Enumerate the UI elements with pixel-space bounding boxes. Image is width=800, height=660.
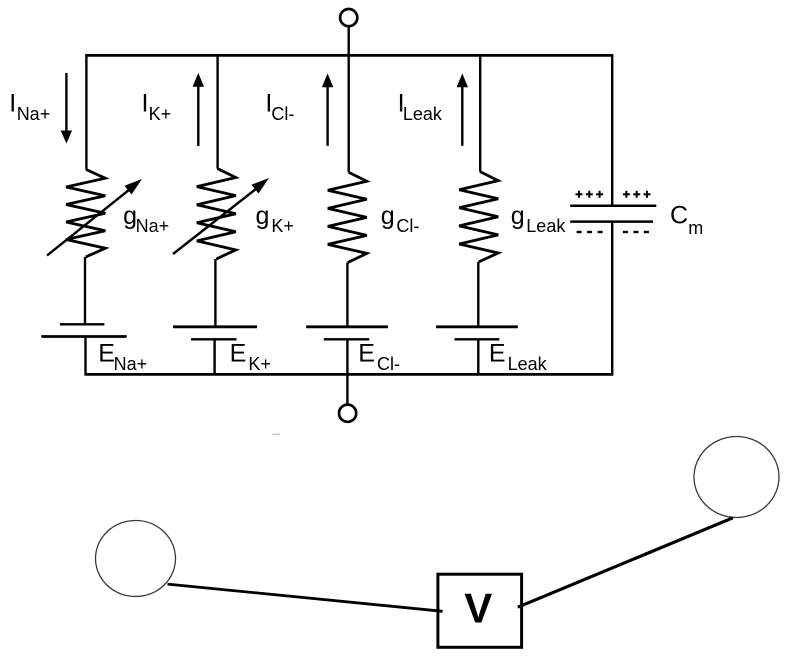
resistor gK+ (variable) zigzag: [197, 169, 236, 260]
wire: branch 4 top segment: [479, 55, 481, 171]
svg-text:C: C: [670, 201, 688, 229]
battery EK+ long plate (top): [173, 325, 257, 328]
current arrow INa+ (downward): [65, 73, 67, 132]
wire: branch 1 top segment: [85, 55, 87, 169]
resistor gNa+ (variable) zigzag: [66, 170, 105, 258]
svg-text:Leak: Leak: [526, 216, 566, 236]
svg-text:I: I: [9, 90, 16, 118]
battery ENa+ short plate (top): [60, 323, 105, 325]
wire: top rail: [85, 54, 613, 57]
wire: branch 4 middle segment: [477, 262, 479, 327]
capacitor charge marks - - - (right group): [623, 231, 649, 233]
capacitor Cm bottom plate: [570, 220, 653, 223]
svg-text:Cl-: Cl-: [271, 104, 294, 124]
wire: branch 4 bottom segment: [477, 339, 479, 375]
wire: branch 3 bottom segment: [346, 339, 348, 374]
right electrode circle: [694, 437, 779, 518]
svg-text:Cl-: Cl-: [396, 216, 419, 236]
battery ELeak short plate (bottom): [454, 338, 499, 340]
wire: left electrode to voltmeter: [168, 584, 443, 611]
capacitor Cm top plate: [570, 204, 656, 207]
capacitor charge marks - - - (left group): [577, 231, 603, 233]
wire: branch 1 bottom segment: [84, 337, 86, 376]
svg-text:Na+: Na+: [114, 354, 148, 374]
resistor gCl- zigzag: [328, 172, 367, 262]
svg-text:E: E: [98, 339, 115, 367]
svg-text:K+: K+: [271, 216, 294, 236]
wire: branch 2 middle segment: [214, 259, 216, 327]
wire: branch 2 top segment: [216, 55, 218, 168]
wire: bottom rail: [85, 373, 613, 376]
svg-text:g: g: [256, 202, 270, 230]
svg-text:g: g: [381, 202, 395, 230]
svg-text:E: E: [489, 339, 506, 367]
svg-text:g: g: [511, 202, 525, 230]
svg-text:K+: K+: [248, 354, 271, 374]
wire: top terminal down through top rail to node of R3: [348, 26, 350, 172]
smudge artifact: [273, 433, 281, 435]
battery ELeak long plate (top): [436, 325, 518, 328]
wire: branch 2 bottom segment: [213, 339, 215, 375]
svg-text:Leak: Leak: [403, 104, 443, 124]
svg-text:m: m: [688, 218, 703, 238]
top terminal circle: [340, 9, 357, 26]
svg-text:V: V: [464, 585, 492, 632]
wire: stub from bottom rail to bottom terminal: [346, 374, 348, 404]
left electrode circle: [96, 521, 176, 597]
capacitor charge marks +++ (left group): [576, 191, 604, 198]
svg-text:E: E: [230, 339, 247, 367]
battery EK+ short plate (bottom): [191, 338, 237, 340]
wire: capacitor branch bottom segment: [611, 223, 613, 375]
svg-text:Cl-: Cl-: [377, 354, 400, 374]
svg-text:Leak: Leak: [508, 354, 548, 374]
wire: voltmeter to right electrode: [518, 518, 733, 607]
battery ECl- short plate (bottom): [324, 338, 370, 340]
wire: branch 3 middle segment: [346, 263, 348, 327]
svg-text:E: E: [358, 339, 375, 367]
svg-text:Na+: Na+: [136, 216, 170, 236]
bottom terminal circle: [339, 405, 356, 422]
svg-text:Na+: Na+: [17, 104, 51, 124]
wire: capacitor branch top segment: [611, 55, 613, 204]
capacitor charge marks +++ (right group): [623, 191, 651, 198]
svg-text:K+: K+: [149, 104, 172, 124]
arrow through resistor gK+: [173, 189, 257, 255]
current arrow ICl- (upward): [326, 87, 328, 146]
current arrow ILeak (upward): [461, 87, 463, 146]
resistor gLeak zigzag: [459, 172, 498, 262]
current arrow IK+ (upward): [197, 87, 199, 147]
svg-text:I: I: [142, 90, 149, 118]
battery ENa+ long plate (bottom): [41, 335, 126, 338]
arrow through resistor gNa+: [47, 190, 130, 256]
voltmeter box V: [438, 574, 522, 647]
battery ECl- long plate (top): [306, 325, 388, 328]
wire: branch 1 middle segment: [84, 257, 86, 324]
